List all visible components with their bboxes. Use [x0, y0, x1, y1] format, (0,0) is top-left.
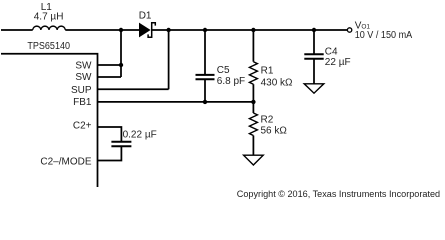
- wire input to L1: [1, 29, 33, 31]
- pin C2-/MODE wire: [98, 146, 122, 160]
- node C4 top: [312, 28, 316, 32]
- diode D1: [139, 23, 155, 38]
- wire C5 top: [204, 30, 206, 75]
- capacitor C2 0.22uF: [111, 142, 131, 147]
- svg-text:0.22 µF: 0.22 µF: [123, 130, 157, 141]
- node SW pin junction: [119, 63, 123, 67]
- svg-text:10 V / 150 mA: 10 V / 150 mA: [355, 30, 413, 41]
- pin SW wire 1: [98, 64, 122, 66]
- node SW branch: [119, 28, 123, 32]
- resistor R2: [249, 113, 257, 136]
- wire R1 top: [252, 30, 254, 62]
- svg-text:22 µF: 22 µF: [325, 57, 351, 68]
- wire R1 bottom: [252, 84, 254, 102]
- pin SUP wire: [98, 88, 169, 90]
- wire L1 to D1 anode: [65, 29, 139, 31]
- IC U1 TPS65140 outline: [1, 54, 98, 187]
- svg-text:FB1: FB1: [73, 97, 92, 108]
- wire C5 bottom: [204, 79, 206, 102]
- ground below R2: [244, 155, 264, 165]
- node FB1 / R1 R2 junction: [251, 100, 255, 104]
- svg-text:TPS65140: TPS65140: [27, 41, 70, 52]
- svg-text:R1: R1: [261, 66, 274, 77]
- capacitor C4: [304, 54, 323, 59]
- svg-text:SW: SW: [75, 72, 92, 83]
- wire SW node down to SW pins: [120, 30, 122, 77]
- output terminal VO1: [347, 28, 351, 32]
- capacitor C5: [196, 75, 215, 79]
- pin C2+ wire: [98, 127, 122, 142]
- svg-text:D1: D1: [139, 11, 152, 22]
- pin FB1 wire: [98, 101, 254, 103]
- node cathode/SUP junction: [166, 28, 170, 32]
- svg-text:R2: R2: [261, 115, 274, 126]
- svg-text:4.7 µH: 4.7 µH: [34, 12, 64, 23]
- wire R2 to ground: [252, 136, 254, 156]
- svg-text:56 kΩ: 56 kΩ: [261, 126, 288, 137]
- svg-text:C2–/MODE: C2–/MODE: [40, 156, 91, 167]
- svg-text:C2+: C2+: [73, 121, 92, 132]
- node R1 top: [251, 28, 255, 32]
- ground below C4: [304, 84, 324, 93]
- svg-text:6.8 pF: 6.8 pF: [217, 76, 245, 87]
- wire D1 cathode to output terminal: [152, 29, 348, 31]
- wire C4 top: [313, 30, 315, 54]
- svg-text:430 kΩ: 430 kΩ: [261, 77, 293, 88]
- wire R2 top: [252, 102, 254, 113]
- svg-text:C4: C4: [325, 46, 338, 57]
- node C5 top: [203, 28, 207, 32]
- wire C4 to ground: [313, 59, 315, 84]
- inductor L1: [33, 26, 66, 30]
- svg-text:SUP: SUP: [71, 85, 92, 96]
- svg-text:Copyright © 2016, Texas Instru: Copyright © 2016, Texas Instruments Inco…: [237, 189, 440, 199]
- pin SW wire 2: [98, 76, 122, 78]
- resistor R1: [249, 62, 257, 85]
- node C5 bottom: [203, 100, 207, 104]
- svg-text:SW: SW: [75, 60, 92, 71]
- wire SUP junction down to SUP pin: [168, 30, 170, 89]
- svg-text:C5: C5: [217, 65, 230, 76]
